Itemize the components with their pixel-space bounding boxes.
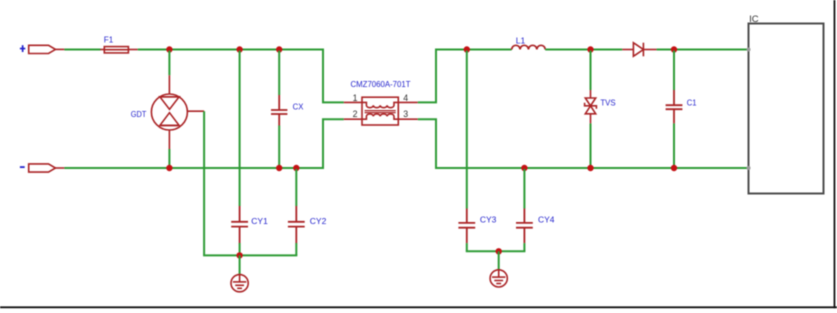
wire top rail F1 to choke corner bbox=[138, 49, 323, 51]
wire CY3 bottom to right ground bus bbox=[466, 243, 468, 251]
wire pin 4 up to top right rail bbox=[418, 50, 436, 103]
wire GDT arm down to ground bus bbox=[203, 111, 205, 255]
node junction top rail GDT bbox=[166, 46, 172, 52]
diode D1 bbox=[622, 43, 656, 57]
wire C1 top bbox=[673, 51, 675, 91]
wire GDT top bbox=[168, 51, 170, 76]
label GDT bbox=[131, 109, 147, 119]
wire left ground bus bbox=[203, 254, 297, 256]
wire minus rail corner up to pin 2 bbox=[323, 119, 344, 169]
svg-text:CY4: CY4 bbox=[538, 215, 555, 225]
wire top right rail to L1 bbox=[435, 49, 512, 51]
node junction bottom rail TVS bbox=[587, 165, 593, 171]
svg-text:4: 4 bbox=[403, 93, 408, 103]
wire diode to IC bbox=[657, 49, 749, 51]
node junction top rail TVS bbox=[587, 46, 593, 52]
svg-text:CX: CX bbox=[293, 101, 304, 111]
svg-text:CY1: CY1 bbox=[251, 216, 268, 226]
wire right ground bus bbox=[466, 250, 526, 252]
node junction left ground bus bbox=[236, 252, 242, 258]
capacitor CY2 bbox=[288, 206, 305, 243]
pin 1 bbox=[353, 93, 358, 103]
wire stub to right earth bbox=[498, 251, 500, 270]
node junction top rail CX bbox=[276, 46, 282, 52]
svg-text:GDT: GDT bbox=[131, 109, 147, 119]
transistor GDT (gas discharge tube) bbox=[151, 75, 204, 149]
label CY3 bbox=[480, 215, 497, 225]
node junction minus rail CX bbox=[276, 165, 282, 171]
node junction top rail C1 bbox=[671, 46, 677, 52]
label CY4 bbox=[538, 215, 555, 225]
node junction top rail CY3 bbox=[464, 46, 470, 52]
ground earth right bbox=[490, 270, 507, 287]
label TVS bbox=[600, 97, 616, 107]
label L1 bbox=[516, 36, 526, 46]
ground earth left bbox=[231, 275, 248, 292]
svg-text:1: 1 bbox=[353, 93, 358, 103]
svg-text:TVS: TVS bbox=[600, 97, 616, 107]
pin 2 bbox=[353, 109, 358, 119]
op-amp IC block bbox=[747, 14, 824, 194]
label CY2 bbox=[310, 216, 327, 226]
connector J+ (plus input) bbox=[29, 45, 65, 53]
node junction minus rail CY2 bbox=[293, 165, 299, 171]
svg-text:C1: C1 bbox=[687, 97, 697, 107]
label F1 bbox=[104, 35, 114, 45]
svg-text:CY2: CY2 bbox=[310, 216, 327, 226]
wire L1 to diode bbox=[545, 49, 622, 51]
label CMZ7060A-701T bbox=[351, 79, 411, 89]
node junction top rail CY1 bbox=[236, 46, 242, 52]
frame border bottom bbox=[0, 306, 837, 308]
diode TVS bbox=[585, 90, 597, 123]
wire bottom right rail bbox=[435, 167, 749, 169]
label C1 bbox=[687, 97, 697, 107]
wire TVS top bbox=[590, 51, 592, 91]
node junction bottom rail C1 bbox=[671, 165, 677, 171]
wire minus rail bbox=[64, 167, 323, 169]
svg-text:L1: L1 bbox=[516, 36, 526, 46]
wire plus connector to F1 bbox=[64, 49, 100, 51]
transformer U1 common mode choke bbox=[344, 97, 418, 125]
label - bbox=[20, 166, 25, 168]
node junction right ground bus bbox=[496, 248, 502, 254]
svg-text:IC: IC bbox=[749, 14, 759, 25]
pin 3 bbox=[403, 109, 408, 119]
wire C1 bottom bbox=[673, 123, 675, 168]
capacitor CY3 bbox=[458, 209, 475, 244]
wire GDT bottom bbox=[168, 149, 170, 168]
connector J- (minus input) bbox=[29, 164, 65, 172]
svg-text:F1: F1 bbox=[104, 35, 114, 45]
wire CY2 vertical from minus rail bbox=[295, 169, 297, 206]
capacitor CY1 bbox=[231, 206, 248, 243]
wire CY1 vertical from top rail bbox=[239, 51, 241, 207]
wire CX bottom to minus rail bbox=[278, 126, 280, 169]
frame border right bbox=[834, 0, 836, 308]
capacitor CX bbox=[271, 95, 287, 126]
wire CY1 bottom to ground bus bbox=[239, 243, 241, 255]
inductor L1 bbox=[512, 45, 546, 49]
wire CY4 bottom to right ground bus bbox=[523, 243, 525, 251]
label CX bbox=[293, 101, 304, 111]
svg-text:CY3: CY3 bbox=[480, 215, 497, 225]
label + bbox=[20, 45, 25, 52]
wire CY2 bottom to ground bus bbox=[295, 243, 297, 255]
node junction minus rail GDT bbox=[166, 165, 172, 171]
pin 4 bbox=[403, 93, 408, 103]
wire top rail corner down to pin 1 bbox=[323, 49, 344, 103]
wire pin 3 down to bottom right rail bbox=[418, 119, 436, 168]
svg-text:2: 2 bbox=[353, 109, 358, 119]
label CY1 bbox=[251, 216, 268, 226]
wire CY4 vertical from bottom rail bbox=[523, 169, 525, 209]
wire CY3 vertical from top rail bbox=[466, 51, 468, 209]
fuse F1 bbox=[100, 47, 137, 53]
wire stub to left earth bbox=[239, 255, 241, 274]
svg-text:CMZ7060A-701T: CMZ7060A-701T bbox=[351, 79, 411, 89]
node junction bottom rail CY4 bbox=[521, 165, 527, 171]
svg-text:3: 3 bbox=[403, 109, 408, 119]
wire TVS bottom bbox=[590, 123, 592, 168]
capacitor CY4 bbox=[516, 209, 533, 244]
wire CX vertical top bbox=[278, 51, 280, 96]
capacitor C1 bbox=[666, 90, 683, 123]
